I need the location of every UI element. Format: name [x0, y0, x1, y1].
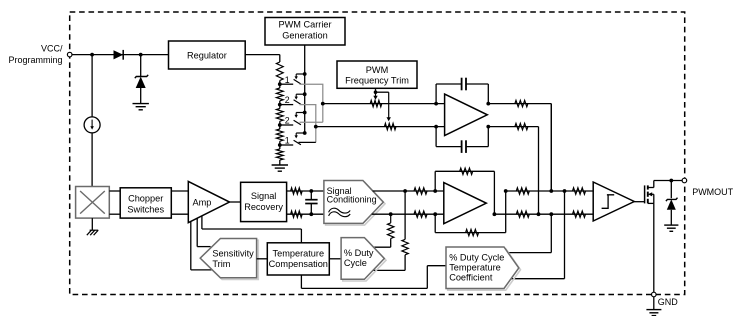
svg-text:Cycle: Cycle: [344, 258, 367, 268]
svg-text:PWMOUT: PWMOUT: [692, 187, 733, 197]
svg-text:Generation: Generation: [282, 30, 327, 40]
svg-text:Sensitivity: Sensitivity: [212, 249, 254, 259]
svg-text:Signal: Signal: [251, 191, 277, 201]
svg-text:Temperature: Temperature: [273, 249, 325, 259]
svg-text:% Duty Cycle: % Duty Cycle: [449, 252, 504, 262]
svg-text:2: 2: [285, 116, 290, 126]
svg-text:Programming: Programming: [8, 55, 62, 65]
svg-text:2: 2: [285, 95, 290, 105]
svg-text:PWM: PWM: [366, 65, 388, 75]
svg-text:Recovery: Recovery: [244, 202, 283, 212]
svg-text:VCC/: VCC/: [41, 44, 63, 54]
svg-text:Chopper: Chopper: [128, 194, 163, 204]
svg-text:1: 1: [285, 136, 290, 146]
svg-text:Coefficient: Coefficient: [449, 273, 493, 283]
svg-text:Conditioning: Conditioning: [327, 194, 377, 204]
svg-text:PWM Carrier: PWM Carrier: [278, 19, 331, 29]
svg-text:Frequency Trim: Frequency Trim: [345, 76, 409, 86]
svg-text:Switches: Switches: [127, 204, 164, 214]
svg-text:% Duty: % Duty: [344, 248, 374, 258]
svg-text:GND: GND: [658, 297, 679, 307]
svg-text:Amp: Amp: [193, 198, 212, 208]
svg-text:Compensation: Compensation: [269, 259, 328, 269]
svg-text:Temperature: Temperature: [449, 263, 501, 273]
svg-text:Regulator: Regulator: [187, 50, 227, 60]
svg-text:1: 1: [285, 75, 290, 85]
svg-text:Trim: Trim: [212, 259, 230, 269]
